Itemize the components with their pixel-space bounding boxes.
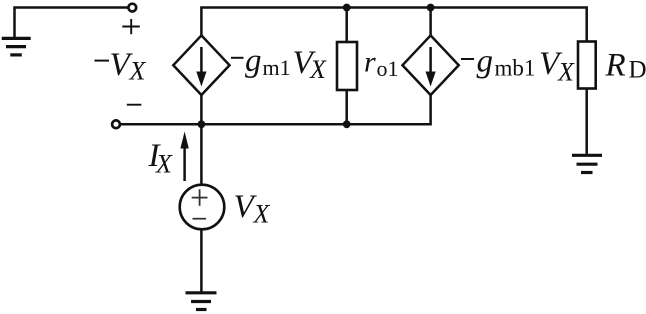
ground (under RD) (572, 155, 602, 172)
current arrow IX (180, 132, 188, 182)
svg-text:X: X (253, 200, 271, 229)
svg-text:R: R (605, 48, 626, 84)
wire diamond1 bottom stub (200, 95, 203, 124)
wire VX source bottom to ground (200, 229, 203, 292)
junction dot (ro1 bottom) (343, 120, 351, 128)
svg-text:X: X (309, 55, 327, 84)
label -gmb1VX (source G2 value) (461, 44, 575, 87)
dependent source G2 (diamond, -gmb1 VX) (403, 35, 459, 95)
junction dot (diamond1 bottom / node) (198, 120, 206, 128)
terminal (open circle, top) (128, 4, 136, 12)
svg-text:o1: o1 (377, 56, 399, 81)
wire resistor ro1 bottom stub (345, 90, 348, 124)
label -VX (input voltage) (95, 47, 147, 86)
label VX (test source value) (234, 189, 271, 229)
svg-text:X: X (129, 57, 147, 86)
wire resistor ro1 top stub (345, 8, 348, 43)
ground (under VX source) (186, 293, 217, 310)
resistor RD (rect) (578, 42, 596, 89)
wire main top rail (201, 8, 586, 42)
resistor ro1 (rect) (337, 42, 357, 90)
svg-text:mb1: mb1 (495, 56, 536, 81)
wire RD bottom stub to ground (585, 89, 588, 155)
wire node to VX source top (200, 124, 203, 185)
terminal (open circle, bottom) (112, 120, 120, 128)
minus sign (inside VX source) (193, 218, 207, 220)
label IX (test current) (148, 138, 174, 179)
svg-text:g: g (477, 44, 494, 80)
svg-text:X: X (557, 58, 575, 87)
ground (top left) (2, 38, 31, 55)
dependent source G1 (diamond, -gm1 VX) (173, 35, 229, 95)
junction dot (ro1 top) (343, 4, 351, 12)
wire bottom horizontal from terminal to diamond2 (121, 95, 431, 124)
wire top-left horizontal to terminal (15, 8, 129, 39)
svg-text:r: r (364, 45, 376, 78)
label RD (resistor value) (605, 48, 646, 84)
label ro1 (resistor value) (364, 45, 399, 81)
junction dot (diamond2 top) (427, 4, 435, 12)
plus sign (top terminal) (122, 19, 140, 34)
label -gm1VX (source G1 value) (231, 43, 327, 84)
svg-text:m1: m1 (263, 55, 291, 80)
voltage source VX (circle) (180, 185, 225, 230)
svg-text:D: D (629, 57, 646, 84)
svg-text:g: g (245, 43, 262, 79)
plus sign (inside VX source) (192, 189, 208, 206)
minus sign (above bottom terminal) (127, 104, 142, 106)
svg-text:X: X (155, 150, 173, 179)
wire diamond2 top stub (429, 8, 432, 36)
